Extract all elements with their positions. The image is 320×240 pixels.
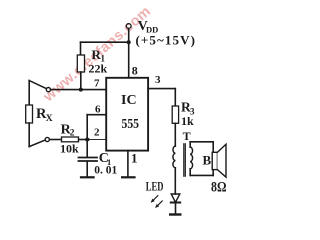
svg-text:7: 7 <box>94 78 100 90</box>
svg-text:1: 1 <box>131 151 138 166</box>
svg-text:T: T <box>183 129 191 143</box>
svg-text:6: 6 <box>95 104 101 116</box>
svg-text:8Ω: 8Ω <box>211 180 227 196</box>
svg-text:8: 8 <box>132 63 138 77</box>
svg-text:22k: 22k <box>89 61 108 75</box>
svg-text:LED: LED <box>146 178 164 193</box>
svg-text:1k: 1k <box>181 114 194 128</box>
svg-text:2: 2 <box>94 127 100 139</box>
svg-text:10k: 10k <box>60 142 79 156</box>
svg-text:X: X <box>46 114 53 124</box>
svg-text:B: B <box>203 153 212 168</box>
svg-text:0. 01: 0. 01 <box>94 165 117 177</box>
svg-text:(+5~15V): (+5~15V) <box>136 33 197 48</box>
svg-text:555: 555 <box>122 117 140 132</box>
svg-text:3: 3 <box>155 74 161 86</box>
svg-text:2: 2 <box>70 128 75 138</box>
svg-text:IC: IC <box>121 93 137 108</box>
